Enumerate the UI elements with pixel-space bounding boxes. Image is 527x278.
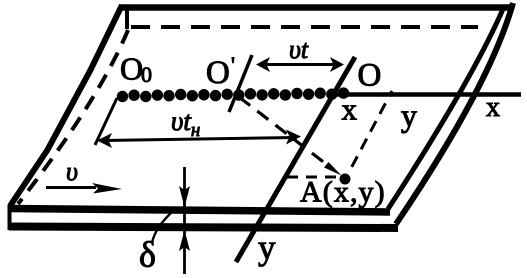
svg-text:υtн: υtн bbox=[171, 106, 200, 141]
svg-text:O: O bbox=[358, 58, 382, 94]
svg-text:0: 0 bbox=[141, 62, 152, 87]
svg-text:y: y bbox=[401, 97, 417, 133]
svg-text:A(x,y): A(x,y) bbox=[300, 176, 386, 209]
svg-text:υt: υt bbox=[289, 35, 309, 64]
svg-text:': ' bbox=[231, 52, 235, 77]
svg-text:x: x bbox=[342, 92, 358, 127]
svg-text:x: x bbox=[486, 92, 500, 123]
svg-text:υ: υ bbox=[66, 157, 78, 186]
svg-text:O: O bbox=[120, 51, 143, 87]
svg-text:δ: δ bbox=[139, 235, 156, 275]
svg-text:y: y bbox=[258, 228, 276, 267]
svg-text:O: O bbox=[206, 55, 230, 91]
